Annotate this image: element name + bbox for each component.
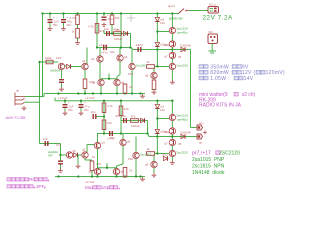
wire d11 to q22 (78, 154, 82, 156)
svg-text:10k: 10k (107, 121, 112, 125)
svg-text:2sc1815: 2sc1815 (136, 64, 148, 68)
wire q1 collector (65, 66, 67, 67)
wire C1 gnd stub (49, 23, 51, 27)
transistor Q24 (120, 139, 131, 145)
capacitor C5 on bus (101, 45, 108, 55)
svg-text:8R2: 8R2 (164, 130, 170, 134)
junction emitter bus x93 (92, 92, 94, 94)
svg-text:q2: q2 (82, 59, 86, 63)
svg-text:12k: 12k (160, 21, 165, 25)
svg-text:2sc1815: 2sc1815 (140, 153, 152, 157)
svg-text:50v: 50v (68, 108, 73, 112)
svg-text:2sc1815 NPN: 2sc1815 NPN (192, 164, 225, 170)
svg-text:sp+: sp+ (199, 121, 204, 125)
wire c8 stub (64, 101, 66, 104)
note title line1 (199, 92, 256, 98)
capacitor C4 (104, 27, 110, 36)
junction x97 y47 (96, 46, 98, 48)
svg-text:47k: 47k (115, 28, 120, 32)
wire bus jog2 (148, 134, 150, 137)
wire mirror link up2 (106, 163, 108, 168)
svg-text:AC.a: AC.a (209, 3, 216, 7)
svg-text:104: 104 (138, 43, 143, 47)
svg-text:1.05W :: 1.05W : (209, 76, 233, 82)
svg-text:x2 ch): x2 ch) (239, 92, 256, 98)
junction emitter bus2 x97.5 (96, 175, 98, 177)
svg-text:+2.2uF: +2.2uF (85, 96, 95, 100)
ground q19b (152, 173, 157, 177)
transistor Q6 output upper (164, 41, 175, 47)
transistor Q25m (89, 168, 101, 174)
wire jack mid pin (25, 101, 40, 103)
wire c9 gnd stub (80, 108, 82, 111)
wire mirror bases (101, 78, 117, 80)
junction emitter bus2 x58.5 (57, 175, 59, 177)
note bottomleft line1 (7, 177, 49, 182)
wire left bus vertical (42, 14, 44, 97)
wire ch2 rail (55, 100, 172, 102)
capacitor C8 (63, 101, 74, 109)
wire q22 collector jog (86, 145, 88, 153)
svg-text:12k: 12k (160, 108, 165, 112)
junction emitter bus x78.3 (77, 92, 79, 94)
junction emitter bus x85 (84, 92, 86, 94)
junction rail x77.5 (76, 12, 78, 14)
junction emitter bus2 x92 (91, 175, 93, 177)
transistor Q15 driver (169, 114, 188, 121)
wire c14 up (60, 155, 62, 161)
note title line2 (199, 97, 216, 103)
wire q11 em (100, 86, 102, 94)
wire q4 jog (117, 75, 120, 77)
diode D2 output ch1 (180, 43, 191, 51)
wire q3 down (99, 62, 101, 79)
wire q9b em (153, 79, 155, 80)
wire bias bus ch1 left (97, 47, 131, 49)
note measurement line3 (199, 76, 254, 82)
connector X1 AC adapter (208, 7, 219, 14)
transistor Q18 driver lower (169, 150, 188, 156)
junction x104 y133 (103, 132, 105, 134)
capacitor C14 (58, 161, 63, 165)
wire c10 link (97, 116, 105, 118)
svg-text:10u: 10u (121, 114, 126, 118)
wire q23 up (97, 134, 99, 143)
svg-text:2SC2120: 2SC2120 (219, 151, 240, 157)
wire bias tap right (157, 31, 169, 33)
note parts line3 (192, 164, 225, 170)
wire x172 2e (171, 157, 173, 161)
junction ch2 rail x81 (80, 100, 82, 102)
wire nfb bus ch2 (97, 133, 148, 135)
junction emitter bus2 x140.5 (139, 175, 141, 177)
wire emitter bus feed (44, 93, 55, 95)
wire q24 jog (117, 164, 124, 166)
junction emitter bus2 x136 (135, 175, 137, 177)
note parts line4 (192, 170, 225, 176)
svg-text:25v: 25v (67, 23, 72, 27)
wire mid ch2 corner (147, 121, 149, 134)
svg-text:10u: 10u (104, 27, 109, 31)
wire x172 e (171, 70, 173, 80)
junction x157 y49 (156, 48, 158, 50)
wire x157 a (156, 14, 158, 18)
wire ch2 input row (61, 154, 67, 156)
wire x121 ch2 (120, 101, 122, 134)
svg-text:+2.2uF: +2.2uF (58, 96, 68, 100)
junction x121 y47 (120, 46, 122, 48)
ground C2 (61, 27, 66, 31)
wire x157 b (156, 22, 158, 43)
wire mirror bases2 (98, 167, 117, 169)
transistor Q16 output upper (164, 128, 175, 134)
note bottomleft line3 (85, 185, 120, 190)
svg-text:05: 05 (178, 142, 182, 146)
connector SP2 speaker pin R (197, 134, 203, 139)
wire x157 c (156, 47, 158, 50)
wire bias bus jog (131, 48, 133, 50)
junction rail x104 (103, 12, 105, 14)
transistor Q12m (114, 79, 125, 85)
svg-text:2sc2120: 2sc2120 (176, 151, 188, 155)
resistor R7b (123, 84, 132, 94)
wire r22 to bus (91, 171, 93, 177)
wire mid corner down (130, 34, 132, 48)
junction x147 y133 (146, 132, 148, 134)
svg-text:2sa1015 PNP: 2sa1015 PNP (192, 157, 225, 163)
resistor R22 (90, 161, 101, 171)
wire x172 d (171, 59, 173, 64)
svg-text:1N4148: 1N4148 (180, 43, 191, 47)
svg-text:1N4148 diode: 1N4148 diode (192, 170, 225, 176)
wire q10 em (131, 70, 133, 94)
wire q23 down (97, 149, 99, 169)
svg-text:8R2: 8R2 (164, 43, 170, 47)
transistor Q11m (92, 79, 104, 85)
resistor R9 (83, 79, 94, 89)
transistor Q19b (145, 161, 157, 167)
svg-text:14V: 14V (244, 76, 254, 82)
wire x172 2b (171, 121, 173, 128)
svg-text:100uF: 100uF (114, 37, 123, 41)
junction emitter bus2 x125 (124, 175, 126, 177)
svg-text:150: 150 (128, 72, 133, 76)
wire x172 b (171, 34, 173, 41)
wire top rail ch1 (43, 13, 180, 15)
ground R2 (75, 41, 80, 45)
svg-text:q2: q2 (82, 148, 86, 152)
svg-text:470: 470 (96, 162, 101, 166)
junction emitter bus x101 (100, 92, 102, 94)
junction rail x97 (96, 12, 98, 14)
transistor Q2 (82, 59, 88, 70)
resistor R5 (114, 28, 122, 36)
wire ch2 input drop (60, 144, 62, 156)
svg-text:1uF: 1uF (43, 137, 48, 141)
wire bias drop ch2 (156, 137, 158, 154)
junction ch2 rail x121 (120, 100, 122, 102)
junction rail x157.4 (156, 12, 158, 14)
junction x157 y66 (156, 65, 158, 67)
junction rail x50 (49, 12, 51, 14)
note bottomleft line2 (7, 184, 45, 189)
wire emitter bus ch2 (55, 176, 145, 178)
transistor Q22 (82, 148, 88, 159)
wire q12 stub (116, 77, 118, 80)
junction rail x121 (120, 12, 122, 14)
svg-text:10k: 10k (124, 107, 129, 111)
wire x121 vertical (120, 14, 122, 48)
svg-text:50v: 50v (53, 23, 58, 27)
svg-text:q3: q3 (91, 57, 95, 61)
wire R1-R2 (77, 25, 79, 29)
junction x172 y136 (171, 135, 173, 137)
svg-text:4.7k: 4.7k (88, 25, 94, 29)
transistor Q9b (145, 72, 157, 78)
wire q22 emitter down (84, 158, 86, 160)
ground c14 (58, 169, 63, 173)
wire r9 to bus (84, 89, 86, 94)
wire q25 em (97, 175, 99, 177)
wire x172 a (171, 14, 173, 28)
wire q26 stub (116, 166, 118, 168)
connector SP1 speaker pin L (197, 125, 203, 130)
wire q26 em (116, 175, 118, 177)
ground C1 (48, 27, 53, 31)
junction x157 y118 (156, 117, 158, 119)
resistor R10 (102, 103, 113, 113)
wire q24 up (122, 134, 124, 140)
svg-text:22: 22 (129, 85, 133, 89)
wire x157 2c (156, 134, 158, 137)
ground C9 (79, 111, 84, 115)
transistor Q17 output lower (164, 139, 175, 145)
diode D10 (155, 130, 165, 134)
wire out bus ch2 (149, 136, 197, 138)
capacitor C2 (61, 16, 72, 24)
svg-text:10u: 10u (91, 110, 96, 114)
capacitor C3 (102, 13, 113, 21)
junction emitter bus2 x116.5 (115, 175, 117, 177)
wire q3 up (99, 48, 101, 56)
junction x112 y33 (111, 32, 113, 34)
wire x157 2a (156, 101, 158, 105)
svg-text:d12: d12 (163, 152, 168, 156)
wire mirror link up (108, 74, 110, 79)
svg-text:10p: 10p (102, 185, 110, 190)
label JACK PJ-355 (5, 116, 25, 120)
svg-text:4u7: 4u7 (99, 29, 104, 33)
wire emitter bus ch1 (55, 93, 145, 95)
wire jack to emitter bus jog (43, 94, 45, 97)
wire speaker vertical (190, 50, 192, 128)
wire c14 down (60, 165, 62, 169)
wire bias drop ch1 (156, 50, 158, 67)
wire ch2 input horizontal (40, 143, 61, 145)
wire mid horizontal ch2 (121, 120, 148, 122)
svg-text:d5: d5 (73, 149, 77, 153)
transistor Q8 driver lower (169, 63, 188, 69)
ground q21 (76, 164, 81, 168)
transistor Q21 input FET (66, 152, 72, 158)
svg-text:q5: q5 (92, 81, 96, 85)
wire input row (40, 61, 59, 63)
resistor R14 (147, 147, 155, 155)
ground emitter bus (140, 94, 145, 98)
wire switch to connector (189, 10, 208, 12)
junction x172 y49 (171, 48, 173, 50)
wire jack ground stub (211, 44, 213, 52)
junction rail x172.4 (171, 12, 173, 14)
ground C3 (102, 23, 107, 27)
resistor R25 (123, 168, 132, 178)
wire c8 gnd stub (64, 108, 66, 111)
svg-text:q4: q4 (127, 140, 131, 144)
capacitor C10 (91, 110, 97, 119)
transistor Q23 (94, 141, 105, 149)
wire q2 emitter down (84, 70, 86, 79)
diode D1 (124, 31, 128, 35)
connector JACK PJ-355 input (15, 93, 25, 106)
wire speaker corner (191, 127, 198, 129)
transistor Q26m (113, 168, 124, 174)
capacitor C12 on bus (107, 131, 114, 141)
svg-text:25v: 25v (110, 136, 115, 140)
ground emitter bus2 (140, 177, 145, 181)
svg-text:4.7k: 4.7k (70, 16, 76, 20)
svg-text:power sw: power sw (169, 17, 183, 21)
svg-text:2sa1015: 2sa1015 (176, 64, 188, 68)
note title line3 (199, 103, 242, 109)
wire ch2 rail left tail (54, 98, 56, 101)
wire q24b em (135, 159, 137, 177)
junction ch2 input (59, 154, 61, 156)
svg-text:q5: q5 (89, 170, 93, 174)
junction ch2 rail x104 (103, 100, 105, 102)
svg-text:JACK PJ-355: JACK PJ-355 (5, 116, 25, 120)
wire C2 gnd stub (63, 23, 65, 27)
ground q8 (170, 80, 175, 84)
svg-text:3PF: 3PF (36, 184, 45, 189)
capacitor C7 emitter (59, 79, 64, 83)
svg-text:2sk30A: 2sk30A (50, 69, 60, 73)
resistor R2 (72, 29, 80, 39)
junction x130 y47 (129, 46, 131, 48)
ground q9b (152, 90, 157, 94)
svg-text:1k: 1k (92, 155, 96, 159)
svg-text:150: 150 (128, 157, 133, 161)
junction emitter bus2 x78.3 (77, 175, 79, 177)
wire q2 collector up (86, 48, 88, 64)
wire x172 2c (171, 134, 173, 139)
svg-text:47k: 47k (131, 115, 136, 119)
diode D4 (155, 43, 165, 47)
svg-text:r: r (26, 98, 27, 102)
wire x157 2b (156, 109, 158, 130)
wire gnd stub row2 (77, 155, 79, 164)
svg-text:+2.2uF: +2.2uF (85, 180, 95, 184)
svg-text:q7: q7 (164, 55, 168, 59)
capacitor C11 (121, 114, 127, 123)
svg-text:1N4148: 1N4148 (180, 130, 191, 134)
resistor R13 (131, 115, 139, 123)
wire mid horizontal ch1 (104, 33, 131, 35)
wire r14 to q18 (155, 153, 170, 155)
wire q9b em2 (153, 89, 155, 92)
transistor Q5 driver (169, 27, 188, 34)
wire R4 down (111, 25, 113, 34)
note parts line1b (219, 151, 240, 157)
note parts line1a (192, 151, 220, 157)
svg-text:05: 05 (178, 55, 182, 59)
svg-text:10k: 10k (115, 16, 120, 20)
ground q18 (170, 161, 175, 165)
svg-text:+47u: +47u (101, 51, 108, 55)
svg-text:1k: 1k (72, 30, 76, 34)
resistor R11 (102, 120, 112, 130)
transistor Q4 vas2 (117, 55, 128, 61)
diode D9 (155, 105, 165, 109)
resistor R8 (45, 56, 53, 64)
diode D8 output ch2 (180, 130, 191, 138)
svg-text:sp-: sp- (199, 141, 203, 145)
resistor R4 (110, 15, 120, 25)
diode D12 (163, 152, 168, 160)
wire x172 2d (171, 146, 173, 151)
wire bias tap right2 (157, 118, 169, 120)
resistor R6 (147, 60, 155, 68)
wire q4 up (119, 48, 121, 55)
junction ch2 rail x172.4 (171, 100, 173, 102)
wire jack top pin (25, 96, 43, 98)
transistor Q1 input FET (58, 63, 64, 69)
svg-text:1k: 1k (147, 147, 151, 151)
wire r6 to q8 (155, 66, 170, 68)
ground q1 (59, 87, 64, 91)
svg-text:q9: q9 (145, 74, 149, 78)
diode D11 (73, 149, 78, 157)
ground below jack (22, 106, 27, 110)
svg-text:q3: q3 (102, 141, 106, 145)
junction x121 y133 (120, 132, 122, 134)
wire jack bus link (43, 96, 45, 98)
wire q19b em (153, 168, 155, 173)
wire R2 gnd stub (77, 38, 79, 41)
capacitor C6 on bus (136, 43, 142, 52)
junction mirror mid (108, 78, 110, 80)
junction emitter bus x125 (124, 92, 126, 94)
svg-text:spw1: spw1 (168, 4, 175, 8)
svg-text:q9: q9 (145, 163, 149, 167)
junction x157 y153 (156, 152, 158, 154)
svg-text:22: 22 (129, 169, 133, 173)
resistor R3 (88, 24, 99, 34)
ground C8 (63, 111, 68, 115)
wire x172 c (171, 47, 173, 52)
junction ch2 rail x65 (64, 100, 66, 102)
junction emitter bus x58.5 (57, 92, 59, 94)
capacitor C9 (79, 101, 90, 109)
junction rail x63.5 (62, 12, 64, 14)
svg-text:25v: 25v (84, 108, 89, 112)
wire x104 vert (103, 101, 105, 134)
junction emitter bus x132 (131, 92, 133, 94)
note parts line2 (192, 157, 225, 163)
transistor Q10 (129, 63, 148, 69)
wire mid stub left (103, 30, 105, 34)
connector J2 DC jack (208, 34, 218, 44)
resistor R1 (70, 15, 80, 25)
